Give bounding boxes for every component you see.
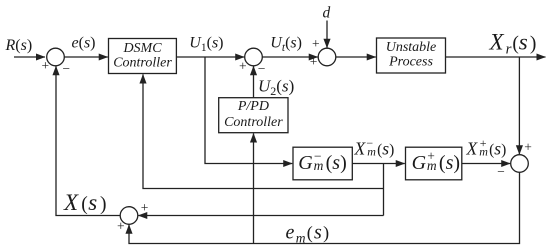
svg-text:+: + (427, 148, 435, 163)
svg-text:Ut(s): Ut(s) (270, 34, 302, 54)
svg-text:G: G (298, 152, 313, 174)
svg-text:+: + (41, 58, 49, 73)
svg-text:(s): (s) (326, 152, 347, 174)
svg-text:X: X (489, 30, 505, 55)
svg-text:−: − (258, 61, 266, 76)
svg-text:r: r (506, 42, 512, 58)
svg-text:(s): (s) (489, 138, 506, 158)
svg-text:(s): (s) (377, 139, 394, 159)
svg-text:+: + (480, 136, 487, 150)
svg-text:G: G (412, 152, 427, 174)
svg-text:): ) (100, 194, 107, 215)
svg-text:s: s (88, 190, 97, 215)
svg-text:−: − (366, 136, 373, 150)
svg-text:X: X (354, 139, 367, 159)
svg-text:+: + (524, 140, 532, 155)
svg-text:−: − (62, 61, 70, 76)
svg-text:(s): (s) (439, 152, 460, 174)
svg-text:R(s): R(s) (5, 37, 33, 54)
svg-text:+: + (239, 59, 247, 74)
svg-text:+: + (312, 36, 320, 51)
svg-text:Process: Process (388, 54, 433, 69)
svg-text:d: d (323, 4, 331, 21)
svg-text:P/PD: P/PD (237, 99, 269, 114)
svg-text:U1(s): U1(s) (189, 35, 223, 55)
svg-text:+: + (310, 54, 318, 69)
svg-text:−: − (497, 164, 505, 179)
svg-text:e(s): e(s) (72, 34, 96, 51)
svg-text:Controller: Controller (224, 115, 283, 130)
svg-text:s: s (519, 30, 528, 55)
svg-text:U2(s): U2(s) (258, 76, 294, 98)
svg-text:X: X (63, 190, 79, 215)
svg-text:+: + (141, 200, 149, 215)
svg-text:): ) (530, 34, 537, 55)
svg-text:+: + (117, 219, 125, 234)
svg-text:X: X (466, 138, 479, 158)
svg-text:DSMC: DSMC (122, 41, 162, 56)
svg-text:Controller: Controller (113, 55, 172, 70)
svg-text:(: ( (81, 194, 88, 215)
svg-text:em(s): em(s) (286, 222, 331, 246)
svg-text:−: − (314, 148, 322, 163)
svg-text:Unstable: Unstable (386, 40, 437, 55)
